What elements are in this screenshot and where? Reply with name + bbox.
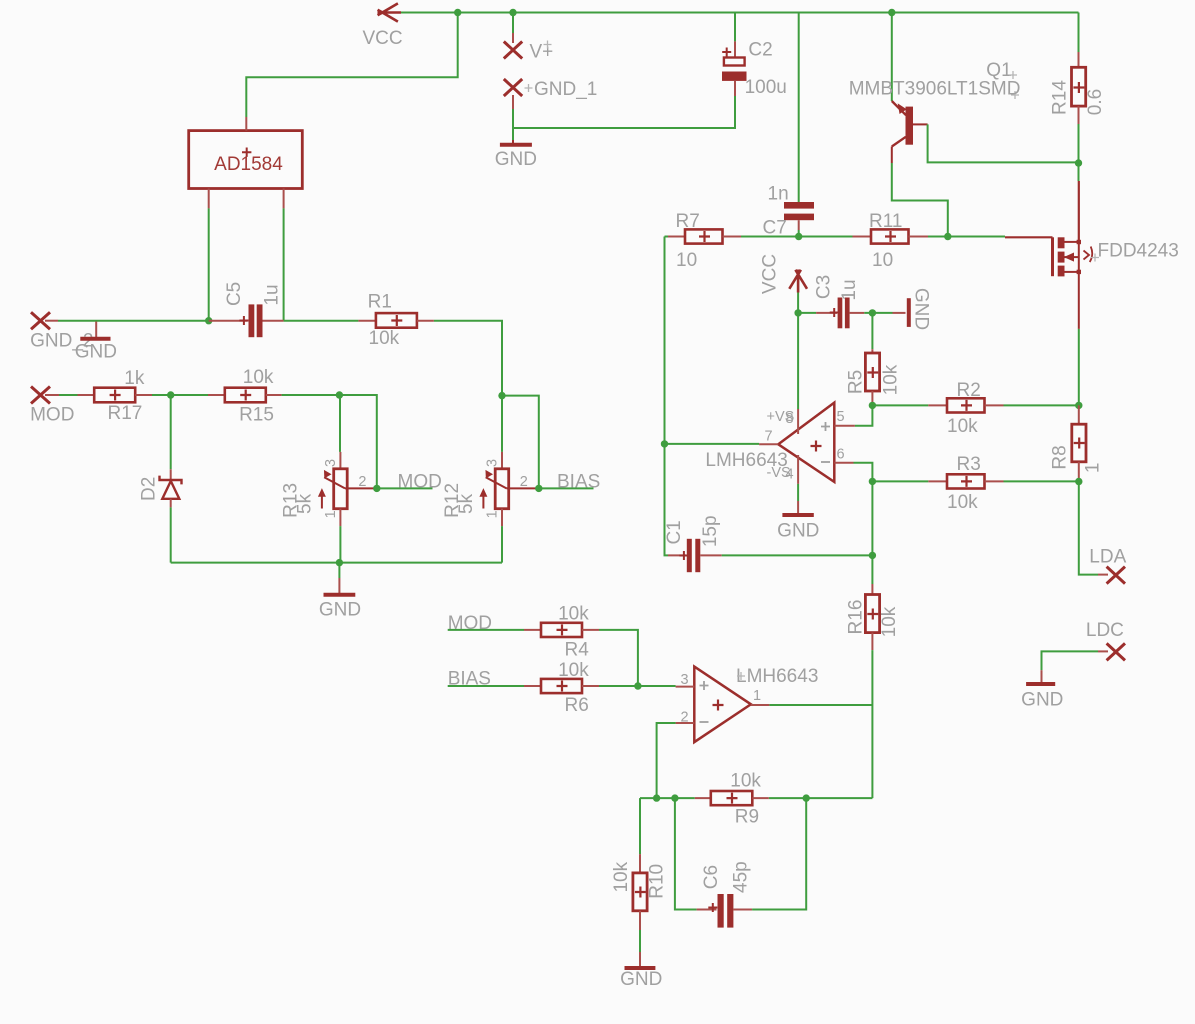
resistor R6 10k <box>524 679 599 693</box>
resistor R16 10k <box>865 584 879 650</box>
transistor FDD4243 P-MOSFET <box>1005 237 1092 329</box>
svg-text:10k: 10k <box>369 328 400 349</box>
pin X flag LDA <box>1107 567 1125 584</box>
capacitor C2 100u <box>734 13 736 42</box>
svg-text:2: 2 <box>520 474 528 490</box>
node junction top rail x457.7 <box>454 9 461 16</box>
supply VCC arrow at op-amp <box>789 270 807 293</box>
resistor R3 10k <box>928 474 1003 488</box>
svg-text:8: 8 <box>786 411 794 427</box>
svg-text:7: 7 <box>765 429 773 445</box>
pin X flag V+ <box>504 42 522 59</box>
op-amp U2 input +/- marks <box>700 681 709 690</box>
capacitor C1 15p <box>665 444 669 556</box>
svg-text:BIAS: BIAS <box>557 472 600 493</box>
pin LDC stub <box>1098 650 1108 652</box>
wire top VCC rail <box>401 12 1079 14</box>
resistor R4 10k <box>524 623 599 637</box>
wire FDD4243 drain pin up to node <box>1078 181 1080 242</box>
transistor Q1 MMBT3906 emitter wire <box>888 9 895 16</box>
svg-text:GND: GND <box>910 288 931 330</box>
svg-text:R3: R3 <box>957 454 981 475</box>
wire bottom rail pots <box>171 562 502 564</box>
svg-text:R14: R14 <box>1050 80 1071 115</box>
svg-text:R17: R17 <box>107 403 142 424</box>
resistor R2 10k <box>928 398 1003 412</box>
svg-text:3: 3 <box>485 459 501 467</box>
wire R7 R11 gate line <box>665 236 1006 238</box>
svg-text:10k: 10k <box>243 367 274 388</box>
wire GND_1 to C2 bottom <box>513 96 735 128</box>
node R5 bottom junction <box>869 402 876 409</box>
potentiometer R13 5k <box>339 395 341 452</box>
wire C5 right to R1 <box>284 320 359 322</box>
wire AD1584 left pin down <box>208 208 210 320</box>
capacitor C6 45p <box>675 798 697 909</box>
resistor R17 1k <box>78 388 153 403</box>
resistor R15 10k <box>208 388 282 403</box>
wire R12 pin2 node <box>502 396 539 489</box>
wire op1 pin6 to R3 node <box>854 463 873 482</box>
svg-text:10k: 10k <box>879 606 900 637</box>
svg-text:R2: R2 <box>957 380 981 401</box>
svg-text:100u: 100u <box>745 77 787 98</box>
svg-text:AD1584: AD1584 <box>214 154 283 175</box>
svg-text:R11: R11 <box>869 211 902 232</box>
wire R10 to ground <box>639 930 641 952</box>
pin GND_1 stub <box>512 95 514 109</box>
svg-text:VCC: VCC <box>363 28 403 49</box>
svg-text:1u: 1u <box>839 279 860 300</box>
pin X flag GND_2 <box>31 312 50 329</box>
svg-text:0.6: 0.6 <box>1085 89 1106 115</box>
wire C1 right to node <box>722 554 873 556</box>
pin X flag GND_1 <box>504 79 522 96</box>
svg-text:GND_1: GND_1 <box>534 79 597 100</box>
svg-text:1: 1 <box>485 510 501 518</box>
wire op2 pin2 to R9 node <box>657 723 676 798</box>
wire BIAS to R6 <box>448 685 524 687</box>
wire V+ drop <box>512 13 514 34</box>
svg-text:10k: 10k <box>558 660 589 681</box>
svg-text:GND: GND <box>75 342 117 363</box>
wire R16 bottom to op2 output line <box>871 650 873 798</box>
svg-text:2: 2 <box>681 710 689 726</box>
resistor R9 10k <box>695 791 769 805</box>
potentiometer R12 5k <box>501 396 503 452</box>
svg-text:GND: GND <box>319 600 361 621</box>
wire D2 to bottom rail <box>170 507 172 562</box>
wire R13 pin2 node <box>339 395 376 488</box>
wire pin6 node down through C1 node <box>871 481 873 584</box>
wire VCC to C3 node <box>797 293 799 313</box>
wire R13 pin1 to rail <box>339 526 341 563</box>
wire BIAS net stub <box>539 487 594 489</box>
svg-text:10k: 10k <box>558 603 589 624</box>
wire R15 to node <box>282 394 340 396</box>
svg-text:15p: 15p <box>700 515 721 547</box>
svg-text:GND: GND <box>777 521 819 542</box>
wire to AD1584 top <box>246 13 457 118</box>
svg-text:5k: 5k <box>456 493 477 514</box>
pin MOD stub <box>45 394 59 396</box>
svg-text:10: 10 <box>872 250 893 271</box>
svg-text:10k: 10k <box>880 364 901 395</box>
ground symbol under GND_1 <box>500 140 532 145</box>
svg-text:10k: 10k <box>730 771 761 792</box>
resistor R5 10k <box>871 313 873 349</box>
wire FDD4243 source down <box>1078 329 1080 406</box>
wire R1 right down to R12 node <box>434 321 502 396</box>
wire MOD to R4 <box>448 629 524 631</box>
svg-text:D2: D2 <box>139 477 160 501</box>
svg-text:C1: C1 <box>664 520 685 544</box>
pin X flag LDC <box>1107 643 1125 660</box>
wire op1 pin5 to R5 node <box>855 405 873 425</box>
svg-text:1: 1 <box>1083 463 1104 474</box>
svg-text:C2: C2 <box>748 40 772 61</box>
wire R4 to pin3 node <box>599 630 638 686</box>
svg-text:R4: R4 <box>565 639 590 660</box>
svg-text:C7: C7 <box>763 218 787 239</box>
svg-text:R15: R15 <box>239 405 274 426</box>
svg-text:R5: R5 <box>846 370 867 394</box>
wire GND_1 down to ground <box>512 128 514 140</box>
ground right of C3 <box>893 298 909 327</box>
wire R14 bottom to node <box>1078 124 1080 163</box>
wire C3 right node <box>864 312 892 314</box>
svg-text:R10: R10 <box>646 864 667 899</box>
svg-text:MOD: MOD <box>30 404 74 425</box>
capacitor C5 1u <box>209 304 284 337</box>
svg-text:3: 3 <box>323 459 339 467</box>
wire R2 to R8 node <box>1004 404 1079 406</box>
op-amp U1 + mark center <box>811 441 822 452</box>
svg-text:MOD: MOD <box>398 472 442 493</box>
svg-text:45p: 45p <box>731 861 752 893</box>
svg-text:LMH6643: LMH6643 <box>736 666 818 687</box>
ground under pots <box>324 578 356 595</box>
svg-text:10k: 10k <box>947 492 978 513</box>
wire R7 left down to op1 output <box>664 237 666 444</box>
svg-text:5k: 5k <box>295 493 316 514</box>
wire LDA from R8 node <box>1079 482 1098 575</box>
capacitor C3 1u <box>816 298 864 329</box>
resistor R8 1 <box>1072 405 1086 481</box>
svg-text:R16: R16 <box>846 600 867 635</box>
wire op1 gnd pin bottom <box>797 484 799 501</box>
wire rail to ground <box>338 563 340 578</box>
wire AD1584 right pin down <box>283 208 285 320</box>
ground under LDC <box>1026 670 1055 684</box>
svg-text:R7: R7 <box>676 211 700 232</box>
svg-text:R8: R8 <box>1049 445 1070 469</box>
svg-text:1u: 1u <box>262 284 283 305</box>
ground symbol on GND_2 wire <box>80 322 110 339</box>
pin LDA stub <box>1098 574 1108 576</box>
node junction top rail x513 <box>509 9 516 16</box>
svg-text:3: 3 <box>681 672 689 688</box>
wire MOD net stub <box>377 487 433 489</box>
capacitor C7 1n <box>798 13 800 203</box>
wire op1 vcc pin top <box>797 313 799 409</box>
wire LDC <box>1042 651 1099 670</box>
wire C6 right up to R9 node <box>752 798 806 909</box>
wire R3 left to pin6 node <box>872 480 928 482</box>
resistor R11 10 <box>853 229 929 243</box>
svg-text:1: 1 <box>753 688 761 704</box>
wire R6 to pin3 node <box>599 685 638 687</box>
svg-text:1: 1 <box>323 510 339 518</box>
svg-text:10k: 10k <box>947 416 978 437</box>
svg-text:GND: GND <box>495 149 537 170</box>
op-amp U2 LMH6643 <box>676 667 770 743</box>
svg-text:R1: R1 <box>368 292 392 313</box>
svg-text:LMH6643: LMH6643 <box>705 450 787 471</box>
svg-text:LDC: LDC <box>1086 620 1124 641</box>
svg-text:10: 10 <box>676 250 697 271</box>
wire Q1 collector to gate line <box>892 163 948 237</box>
svg-text:GND: GND <box>1021 690 1063 711</box>
pin V+ stub <box>512 33 514 43</box>
op-amp U1 input +/- marks <box>821 422 830 431</box>
pin X flag MOD <box>31 387 50 404</box>
resistor R10 10k <box>639 798 641 854</box>
IC AD1584 <box>189 117 303 208</box>
wire GND_2 to C5 node <box>58 320 209 322</box>
resistor R14 0.6 <box>1078 13 1080 53</box>
diode D2 zener <box>170 395 172 469</box>
svg-text:VCC: VCC <box>760 254 781 294</box>
resistor R1 10k <box>358 313 434 328</box>
wire R17 to node <box>152 394 171 396</box>
svg-text:6: 6 <box>837 447 845 463</box>
svg-text:1n: 1n <box>768 184 789 205</box>
svg-text:MMBT3906LT1SMD: MMBT3906LT1SMD <box>849 79 1021 100</box>
svg-text:10k: 10k <box>611 861 632 892</box>
svg-text:R9: R9 <box>735 807 759 828</box>
svg-text:C3: C3 <box>814 275 835 299</box>
pin GND_2 stub <box>45 320 58 322</box>
ground under R10 <box>625 952 656 968</box>
svg-text:R6: R6 <box>565 695 589 716</box>
svg-text:2: 2 <box>358 474 366 490</box>
svg-text:C5: C5 <box>224 282 245 306</box>
wire Q1 base to R14 bottom node <box>928 124 1079 162</box>
wire R9 node row <box>640 797 872 799</box>
svg-text:GND: GND <box>620 969 662 990</box>
svg-text:FDD4243: FDD4243 <box>1098 241 1179 262</box>
svg-text:5: 5 <box>837 409 845 425</box>
resistor R7 10 <box>668 229 741 243</box>
svg-text:C6: C6 <box>701 865 722 889</box>
op-amp U2 + mark center <box>713 700 724 711</box>
wire R12 pin1 to rail <box>501 526 503 563</box>
wire R3 to R8 bottom node <box>1004 480 1079 482</box>
VCC supply symbol top-left <box>378 3 402 21</box>
svg-text:LDA: LDA <box>1089 547 1126 568</box>
ground under op1 <box>782 501 813 515</box>
op-amp U1 LMH6643 (mirrored) <box>759 403 855 484</box>
svg-text:1k: 1k <box>124 368 145 389</box>
transistor Q1 MMBT3906LT1SMD <box>892 101 928 163</box>
wire op2 output <box>769 704 872 706</box>
